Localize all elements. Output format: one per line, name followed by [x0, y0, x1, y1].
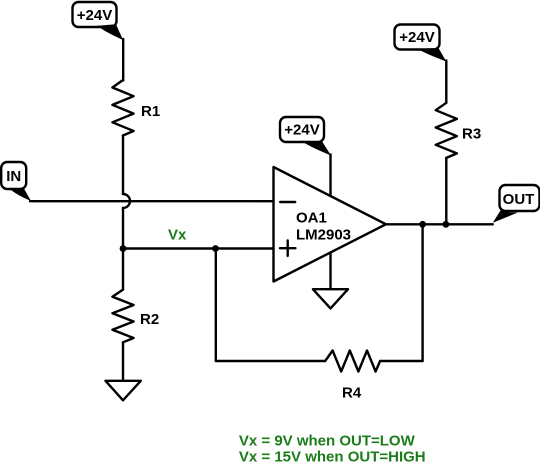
wire R1 to hop [122, 136, 124, 195]
svg-text:+24V: +24V [399, 29, 434, 46]
wire op-amp positive supply [329, 155, 331, 197]
op-amp OA1 LM2903 [274, 167, 386, 282]
net label IN [1, 162, 31, 201]
svg-text:LM2903: LM2903 [296, 226, 351, 243]
wire hop over IN wire (no connection) [123, 194, 130, 208]
wire +24V to R3 [445, 61, 447, 103]
wire feedback vertical [215, 249, 217, 362]
wire R3 to output node [445, 158, 447, 224]
svg-text:Vx = 15V when OUT=HIGH: Vx = 15V when OUT=HIGH [239, 448, 426, 465]
resistor R4 [325, 351, 380, 402]
resistor R1 [112, 80, 160, 136]
wire op-amp output [384, 223, 493, 225]
resistor R3 [436, 103, 481, 158]
svg-text:Vx: Vx [168, 227, 187, 244]
resistor R2 [112, 290, 159, 343]
wire IN to op-amp inverting input [30, 200, 274, 202]
svg-text:OUT: OUT [503, 191, 535, 208]
svg-text:R2: R2 [140, 311, 159, 328]
svg-text:R3: R3 [462, 126, 481, 143]
svg-text:R1: R1 [141, 103, 160, 120]
svg-text:+24V: +24V [77, 7, 112, 24]
ground (op-amp) [313, 289, 348, 308]
ground (below R2) [106, 381, 141, 401]
wire Vx node to R2 [122, 249, 124, 290]
svg-text:+24V: +24V [284, 122, 319, 139]
wire R4 to output corner [380, 360, 423, 362]
wire hop to node Vx [122, 208, 124, 249]
svg-text:OA1: OA1 [296, 210, 327, 227]
node Vx junction [120, 245, 127, 252]
node feedback/output junction [419, 221, 426, 228]
wire Vx node to op-amp non-inverting input [123, 247, 274, 249]
node feedback junction on Vx wire [212, 245, 219, 252]
net label OUT [493, 185, 540, 223]
wire +24V to R1 [122, 39, 124, 81]
svg-text:Vx = 9V when OUT=LOW: Vx = 9V when OUT=LOW [239, 432, 416, 449]
svg-text:R4: R4 [342, 385, 362, 402]
svg-text:IN: IN [6, 168, 21, 185]
wire op-amp ground lead [329, 253, 331, 290]
wire feedback up to output [421, 224, 423, 361]
wire feedback bottom to R4 [216, 360, 325, 362]
net label +24V (op-amp supply) [280, 117, 331, 156]
node R3/output junction [443, 221, 450, 228]
wire R2 to ground [122, 342, 124, 381]
net label +24V (R1 supply) [73, 2, 124, 40]
net label +24V (R3 supply) [395, 25, 447, 62]
